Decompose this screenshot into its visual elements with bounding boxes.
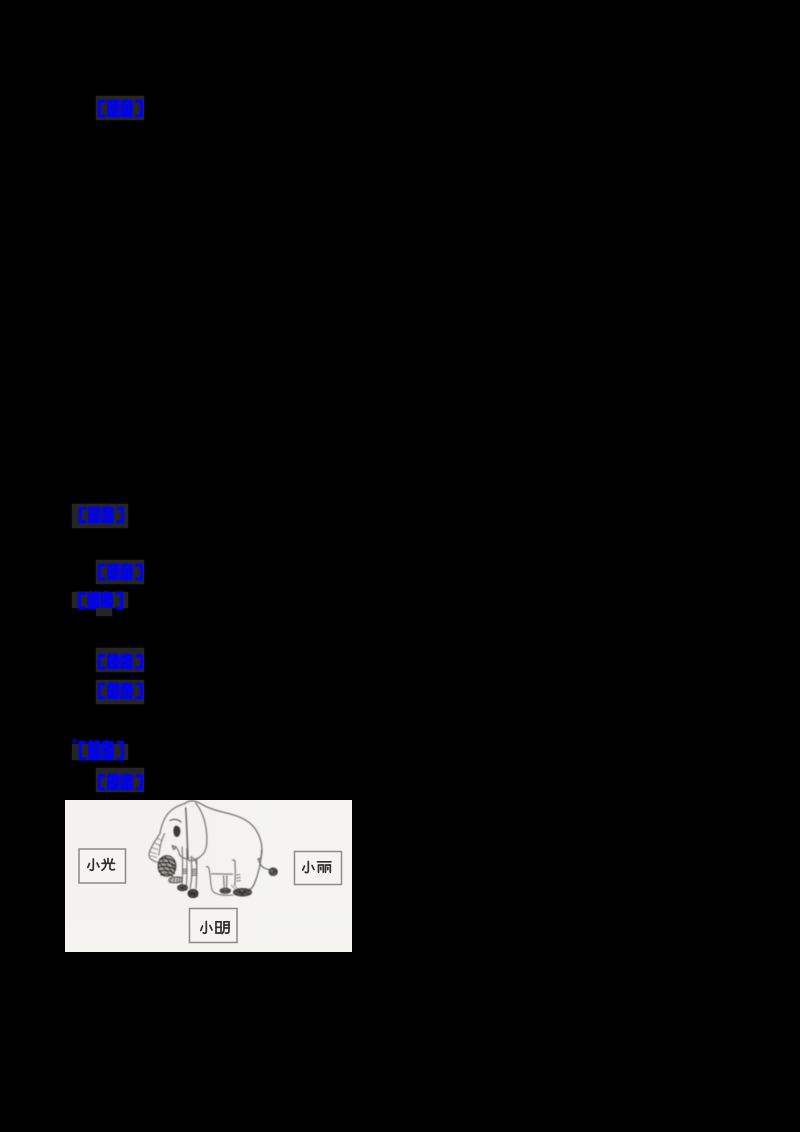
eye	[173, 826, 180, 837]
near front leg hatch	[192, 869, 197, 876]
far front leg	[181, 847, 184, 885]
far hind leg	[224, 876, 227, 889]
groin and ground curve	[206, 866, 233, 895]
far hind foot scribble	[220, 888, 230, 893]
name box 小光	[79, 849, 126, 883]
eyebrow	[170, 819, 181, 822]
answer label A2 highlighted	[72, 504, 128, 528]
far front leg hatch	[182, 869, 187, 874]
trunk inner edge	[159, 834, 165, 856]
ball held by trunk	[158, 856, 176, 877]
trunk outer edge	[149, 834, 160, 863]
name box 小明	[190, 909, 238, 943]
tail tuft scribble	[269, 868, 277, 875]
near hind foot scribble	[234, 889, 252, 896]
tusk	[172, 845, 176, 850]
scanned picture: elephant with three name boxes	[65, 800, 352, 952]
name box 小丽	[295, 852, 342, 885]
answer label A6 highlighted	[96, 680, 144, 704]
near hind leg hatch	[237, 874, 240, 881]
ear front edge (vertical line)	[186, 808, 188, 859]
elephant back outline	[185, 801, 262, 860]
jaw line	[180, 855, 189, 859]
hatch between hind feet	[231, 885, 238, 890]
answer label A4 highlighted	[72, 592, 128, 608]
answer label A3 highlighted	[96, 560, 144, 584]
answer label A8 highlighted	[96, 768, 144, 792]
far hind leg T-bar	[212, 873, 233, 875]
near front leg	[190, 857, 192, 889]
answer label A1 highlighted	[96, 96, 144, 120]
answer label A4 descender highlight	[96, 608, 112, 616]
ear back edge	[188, 803, 207, 861]
trunk tip pad with toe hatches	[169, 877, 182, 883]
answer label A5 highlighted	[96, 648, 144, 672]
chest line	[193, 858, 197, 868]
elephant tail	[258, 859, 270, 871]
near front foot scribble	[188, 889, 198, 897]
trunk wrinkles	[150, 838, 162, 857]
answer label A7 stray blue tick	[73, 739, 76, 743]
near hind leg front edge	[233, 860, 236, 884]
near hind leg outer edge	[249, 850, 262, 890]
face front edge	[160, 804, 185, 834]
answer label A7 highlighted	[72, 744, 128, 760]
far front foot scribble	[178, 885, 188, 891]
